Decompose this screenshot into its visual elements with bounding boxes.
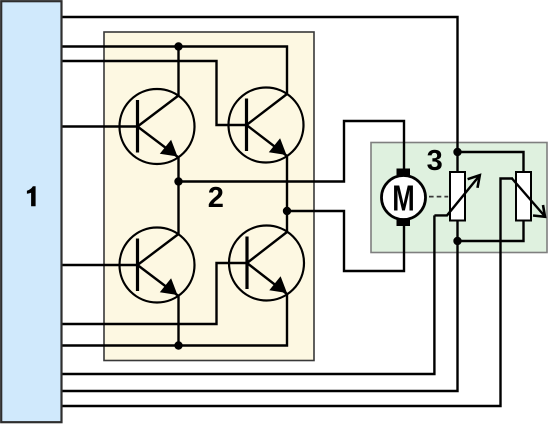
wire Q2 base	[61, 61, 247, 125]
wire pot1 bottom	[456, 221, 458, 242]
mechanical link (dashed)	[429, 196, 448, 198]
wire bus to pot bottom node	[61, 241, 458, 391]
wire bus to pot2 wiper	[61, 179, 513, 407]
svg-text:2: 2	[208, 182, 224, 214]
wire emitter rail	[61, 294, 287, 346]
node F pot bottom junction	[453, 237, 461, 245]
potentiometer RP2	[512, 172, 545, 221]
wire Q1 collector drop	[177, 47, 179, 96]
block 3 load box	[371, 143, 547, 253]
transistor Q2	[229, 88, 304, 163]
transistor Q1	[120, 89, 195, 164]
wire Q3 base	[61, 264, 138, 266]
node D emitter rail junction	[174, 341, 182, 349]
svg-text:M: M	[392, 177, 414, 218]
node B left mid junction	[174, 177, 182, 185]
motor M1	[382, 169, 426, 227]
node C right mid junction	[283, 207, 291, 215]
transistor Q4	[229, 226, 304, 301]
transistor Q3	[120, 228, 195, 303]
svg-text:3: 3	[427, 145, 443, 177]
node A top rail junction	[174, 42, 182, 50]
block 1 controller	[1, 1, 61, 422]
wire Q2 emitter to Q4 collector	[286, 156, 288, 232]
label 1	[27, 186, 36, 206]
wire pot bottom link to pot2	[458, 221, 524, 242]
wire pot top link to pot2	[458, 152, 524, 172]
potentiometer RP1	[434, 172, 479, 221]
wire Q1 base	[61, 125, 138, 127]
wire Q1 emitter to Q3 collector	[177, 158, 179, 235]
block 2 H-bridge box	[104, 32, 314, 361]
wire left mid node to motor top	[179, 121, 405, 182]
wire bus to pot1 wiper	[61, 215, 434, 374]
wire top rail to pots	[61, 17, 458, 152]
wire pot1 top feed	[456, 152, 458, 172]
wire Q3 emitter drop	[177, 296, 179, 346]
wire collector rail	[61, 47, 287, 95]
node E pot top junction	[453, 148, 461, 156]
wire Q4 base	[61, 263, 247, 324]
wire right mid node to motor bottom	[287, 211, 404, 271]
